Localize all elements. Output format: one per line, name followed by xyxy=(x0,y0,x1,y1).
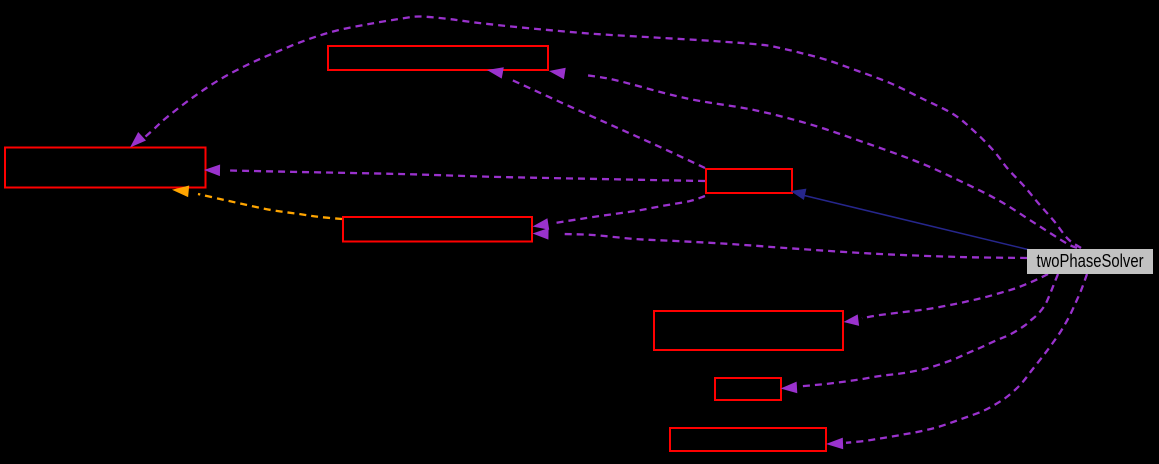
svg-text:twoPhaseSolver: twoPhaseSolver xyxy=(1037,250,1144,271)
